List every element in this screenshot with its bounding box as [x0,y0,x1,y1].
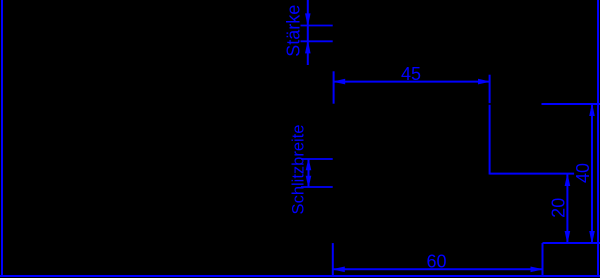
arrow Staerke down [306,14,311,25]
wire shoulder edge [542,103,600,105]
wire 45 dimension line [334,81,490,83]
wire extension line C lower segment [489,105,491,175]
svg-text:45: 45 [401,64,421,84]
svg-text:40: 40 [573,163,593,183]
wire Schlitzbreite lower tick [301,186,333,188]
arrow 60 right [531,267,542,272]
wire left frame edge [1,0,3,277]
wire Staerke dimension line [307,0,309,65]
arrow 60 left [334,267,345,272]
arrow 20 up [565,175,570,186]
arrow Schlitzbreite down [306,176,311,186]
wire Staerke upper edge tick [301,25,333,27]
arrow 40 down [590,231,595,242]
wire Schlitzbreite upper tick [301,158,333,160]
wire 60 dimension line [333,268,543,270]
wire bottom frame edge [0,275,600,277]
arrow 40 up [590,105,595,116]
svg-text:60: 60 [426,252,446,272]
wire bottom right step top edge [543,242,600,244]
wire 40 dimension line [591,105,593,243]
arrow 20 down [565,231,570,242]
arrow Staerke up [306,42,311,53]
arrow 45 right [478,79,489,84]
wire right part edge [597,0,599,276]
wire Schlitzbreite dimension line [308,159,310,187]
wire slot bottom edge [490,173,574,175]
arrow 45 left [334,79,345,84]
wire bottom right step left edge [542,243,544,276]
arrow Schlitzbreite up [306,160,311,170]
wire 20 dimension line [566,174,568,242]
wire Staerke lower edge tick [301,40,333,42]
svg-text:Schlitzbreite: Schlitzbreite [290,125,308,215]
svg-text:20: 20 [549,198,569,218]
wire extension line C upper segment [489,75,491,104]
wire extension line B left of 45 dim [333,71,335,103]
wire bottom left extension line [332,243,334,276]
svg-text:Stärke: Stärke [284,5,304,57]
